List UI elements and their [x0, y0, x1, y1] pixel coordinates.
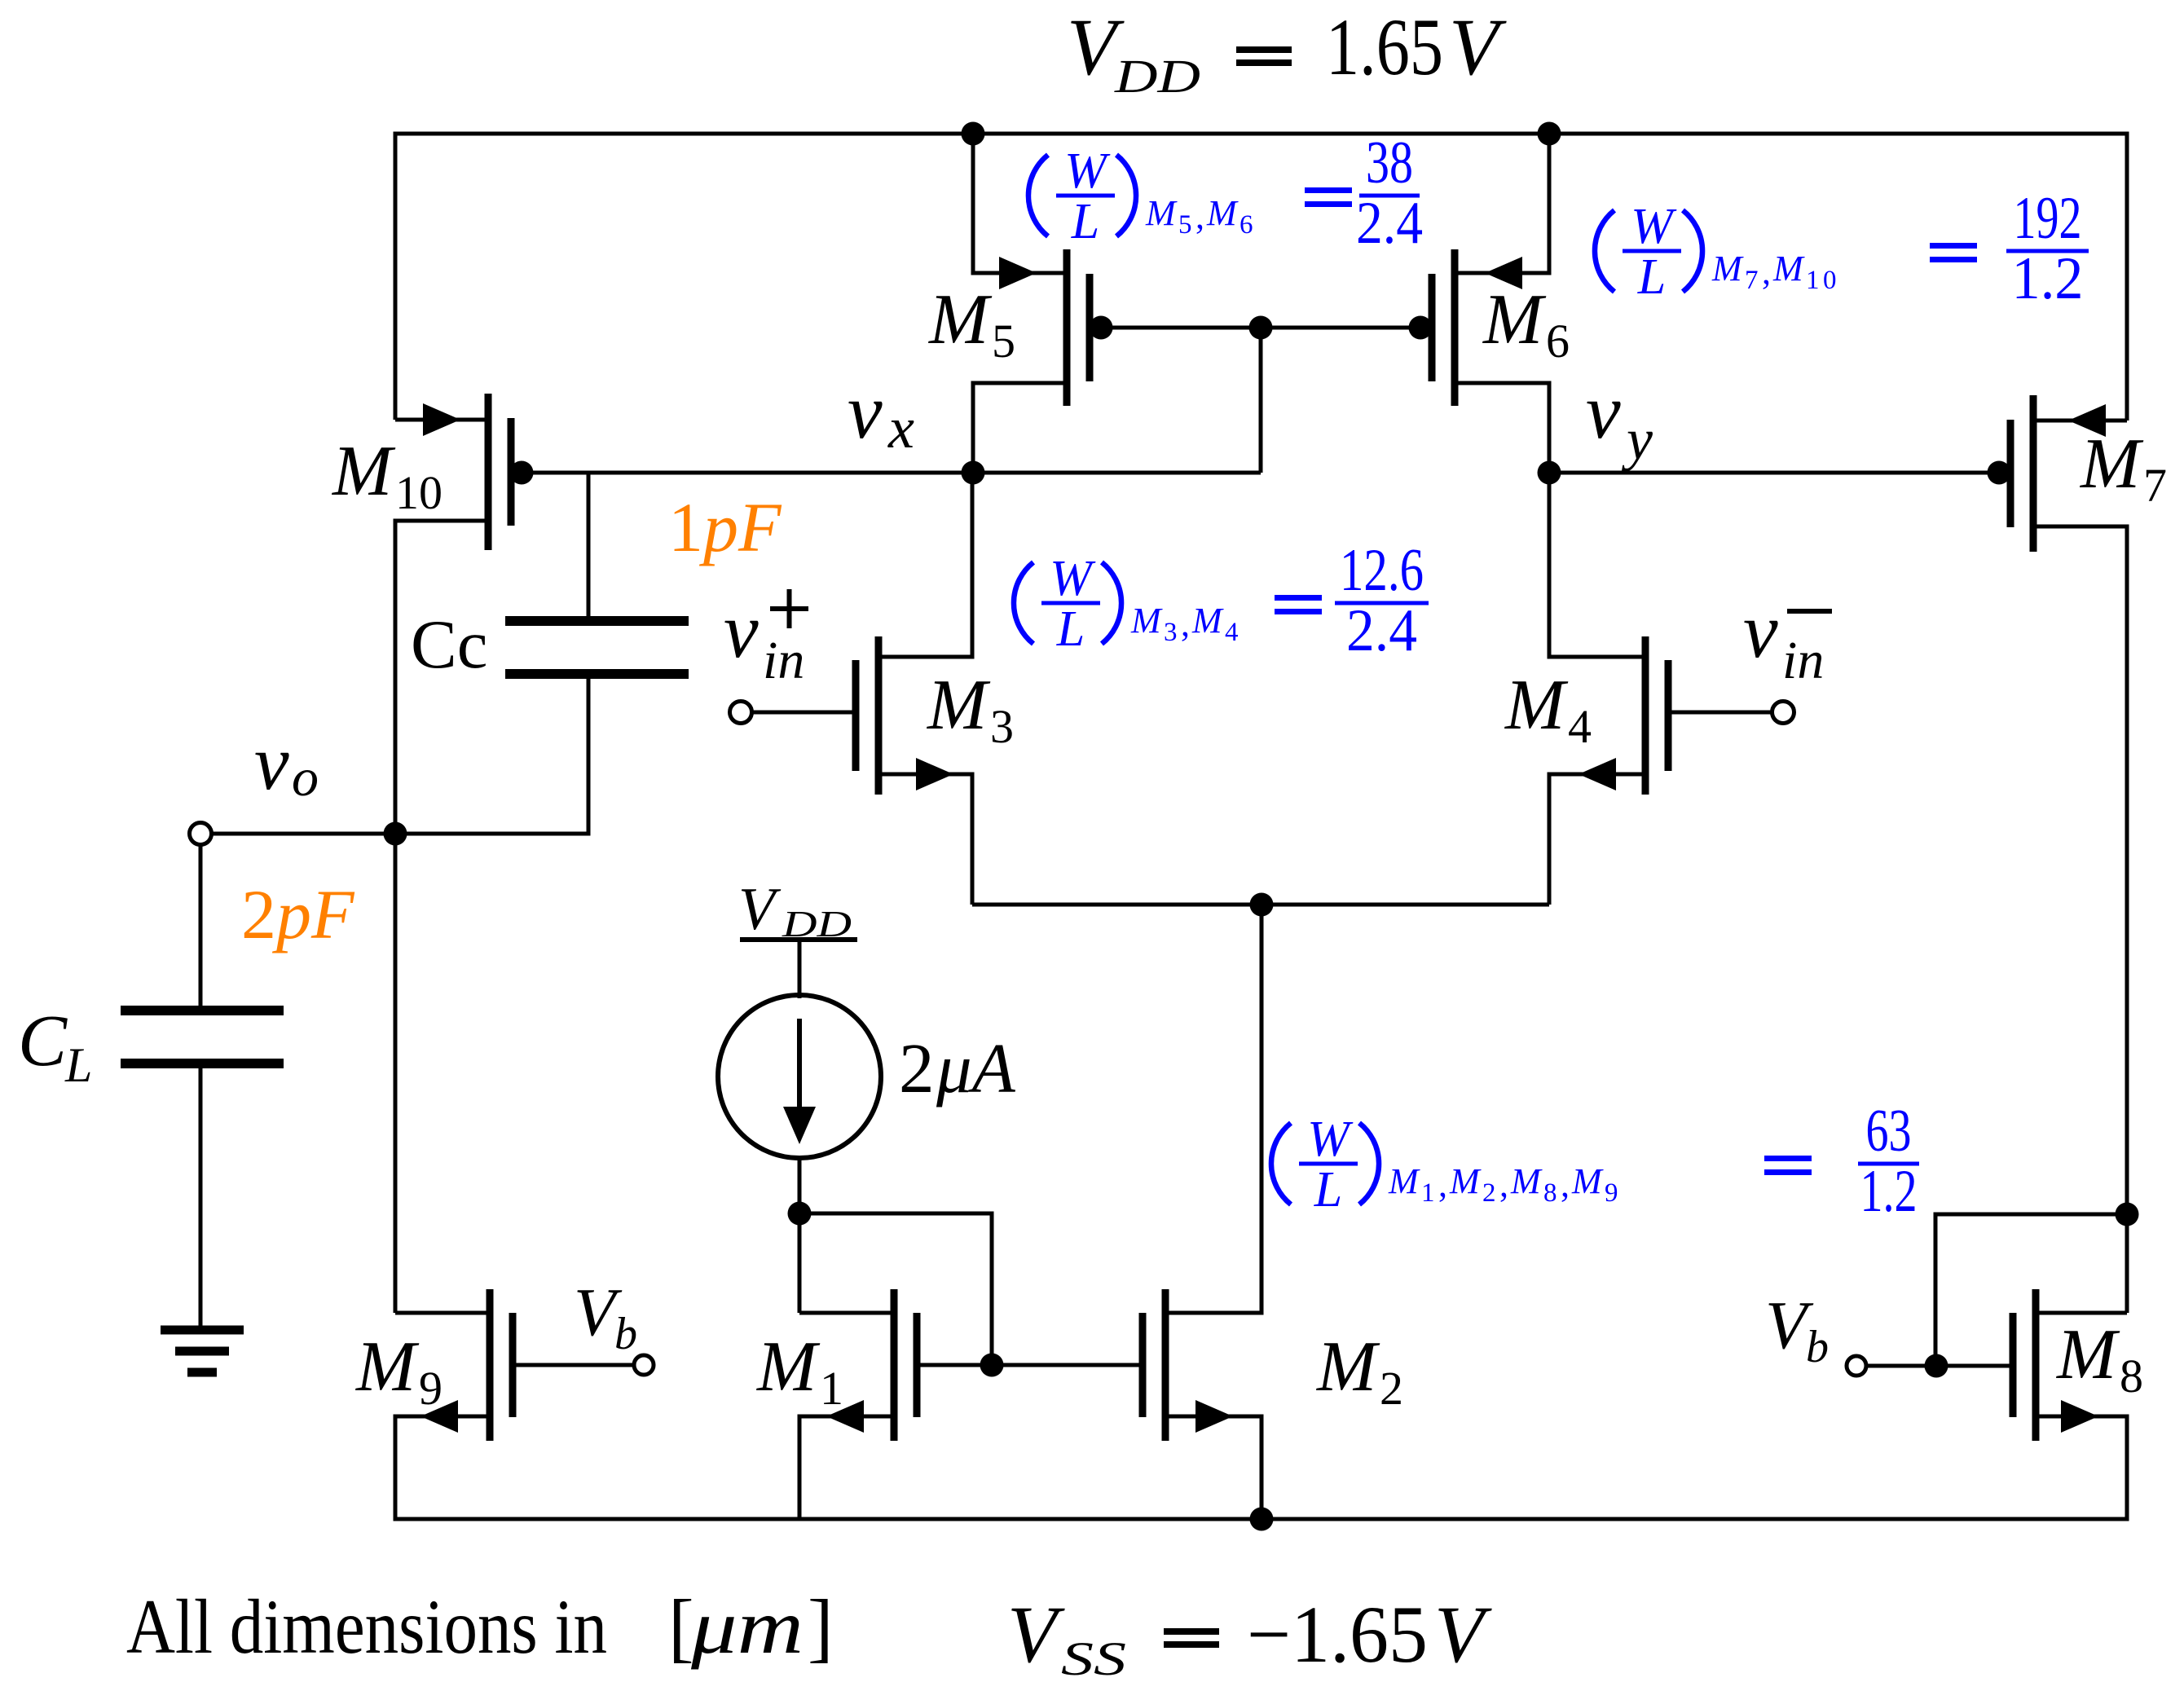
svg-text:V: V [1434, 1589, 1492, 1680]
svg-text:DD: DD [1114, 50, 1200, 103]
label M6 [1482, 280, 1570, 368]
wire M7 drain to right rail [2033, 525, 2127, 529]
wire left rail upper segment [394, 132, 398, 420]
svg-text:M: M [1145, 193, 1178, 233]
node M5 gate junction [1090, 316, 1113, 340]
svg-text:Cc: Cc [411, 606, 487, 683]
svg-text:0: 0 [1823, 266, 1837, 295]
label W/L M1 M2 M8 M9 [1271, 1098, 1919, 1225]
terminal vin- [1772, 702, 1794, 724]
transistor M10 [488, 394, 511, 550]
svg-text:V: V [738, 876, 782, 943]
node VDD junction above M6 [1538, 122, 1561, 146]
svg-text:v: v [1586, 368, 1621, 455]
svg-text:L: L [1314, 1162, 1342, 1217]
wire right rail mid segment [2125, 525, 2129, 1314]
svg-text:M: M [926, 666, 991, 745]
svg-text:2: 2 [241, 875, 276, 953]
label vin- [1743, 587, 1832, 690]
svg-text:,: , [1561, 1165, 1570, 1204]
wire vx bus (M10 gate to gate-bus stub) [511, 471, 1261, 475]
wire M9 gate to Vb terminal [513, 1363, 632, 1367]
label Cc value 1pF [668, 488, 782, 566]
svg-text:3: 3 [990, 700, 1014, 753]
nmos source arrow M3 [916, 758, 953, 790]
label M10 [331, 432, 443, 519]
svg-text:2.4: 2.4 [1356, 190, 1423, 257]
svg-text:7: 7 [1745, 266, 1759, 295]
terminal Vb left [634, 1355, 654, 1375]
label M5 [927, 280, 1015, 368]
wire Cc bottom plate to vo [395, 679, 588, 834]
supply VDD bar [740, 937, 857, 942]
nmos source arrow M1 [826, 1400, 864, 1433]
node right rail junction above M8 [2116, 1203, 2139, 1226]
svg-text:5: 5 [992, 315, 1015, 368]
capacitor Cc [505, 621, 689, 674]
svg-text:9: 9 [419, 1362, 443, 1415]
node M1-M2 gate junction [980, 1354, 1004, 1377]
wire M4 drain to vy [1549, 473, 1645, 657]
label M4 [1504, 666, 1592, 753]
wire tail to M2 drain [1165, 905, 1262, 1313]
wire M9 drain from left rail [395, 1311, 490, 1315]
label W/L M5 M6 [1028, 130, 1423, 257]
label vin+ [724, 587, 808, 690]
label M2 [1315, 1328, 1403, 1415]
label vo [254, 719, 319, 808]
wire M5 source from VDD rail [973, 134, 1067, 273]
node M6 gate junction [1409, 316, 1433, 340]
svg-text:9: 9 [1605, 1178, 1618, 1208]
svg-text:M: M [927, 280, 993, 359]
svg-text:L: L [1637, 249, 1666, 305]
svg-text:M: M [354, 1328, 420, 1407]
svg-text:M: M [1772, 249, 1805, 288]
transistor M8 [2013, 1289, 2036, 1441]
svg-text:2: 2 [1380, 1362, 1403, 1415]
wire Vb terminal to M8 gate [1867, 1364, 2010, 1368]
svg-text:M: M [1449, 1161, 1482, 1201]
wire M1-M2 gate bus [917, 1363, 1143, 1367]
node vy [1538, 461, 1561, 485]
wire M3 source to tail [878, 774, 972, 905]
svg-text:6: 6 [1546, 315, 1570, 368]
svg-text:M: M [755, 1328, 821, 1407]
svg-text:M: M [1504, 666, 1569, 745]
label 2uA [899, 1028, 1016, 1107]
svg-text:b: b [1806, 1322, 1829, 1372]
wire current source to mirror node [798, 1158, 802, 1213]
terminal vo [190, 823, 212, 845]
svg-text:1.65: 1.65 [1326, 2, 1443, 92]
nmos source arrow M8 [2061, 1400, 2098, 1433]
pmos source arrow M10 [423, 403, 460, 436]
svg-text:M: M [2079, 425, 2144, 504]
wire differential pair tail [972, 903, 1549, 907]
svg-text:,: , [1195, 196, 1204, 236]
wire M3 drain to vx [878, 473, 972, 657]
svg-text:M: M [1510, 1161, 1543, 1201]
nmos source arrow M4 [1579, 758, 1616, 790]
svg-text:v: v [254, 719, 289, 806]
terminal Vb right [1847, 1356, 1866, 1376]
svg-text:1.2: 1.2 [2012, 245, 2084, 312]
svg-text:4: 4 [1568, 700, 1592, 753]
capacitor CL [121, 1011, 284, 1063]
svg-text:in: in [1782, 631, 1824, 690]
label VDD = 1.65V [1067, 2, 1507, 103]
svg-text:1.2: 1.2 [1860, 1158, 1918, 1225]
wire left rail lower segment [394, 1415, 398, 1520]
wire M6 drain to node vy [1455, 383, 1549, 461]
label Vb right [1765, 1288, 1829, 1372]
svg-text:M: M [1206, 193, 1239, 233]
pmos source arrow M6 [1485, 257, 1522, 289]
svg-text:[: [ [668, 1583, 694, 1670]
label all dimensions note [126, 1583, 834, 1670]
wire M1 source to VSS [799, 1416, 894, 1519]
svg-text:,: , [1181, 604, 1190, 644]
svg-text:V: V [1007, 1589, 1065, 1680]
transistor M1 [894, 1289, 917, 1441]
svg-text:μA: μA [936, 1028, 1016, 1107]
wire right rail lower segment [2125, 1415, 2129, 1520]
svg-text:SS: SS [1061, 1632, 1126, 1682]
wire M5-M6 gate bus [1090, 326, 1432, 330]
svg-text:V: V [1449, 2, 1507, 92]
wire M10 drain to left rail [395, 519, 488, 523]
label VDD small [738, 876, 852, 944]
transistor M5 [1067, 249, 1090, 406]
svg-text:W: W [1050, 551, 1096, 606]
svg-text:L: L [64, 1038, 92, 1092]
svg-text:L: L [1056, 601, 1085, 657]
svg-text:M: M [331, 432, 396, 511]
wire vin- to M4 gate [1667, 711, 1772, 715]
svg-text:10: 10 [395, 466, 443, 519]
wire VSS bottom rail [394, 1517, 2129, 1521]
wire mirror node to gate bus [799, 1213, 992, 1365]
svg-text:All dimensions in: All dimensions in [126, 1583, 607, 1670]
svg-text:,: , [1438, 1165, 1447, 1204]
current source 2uA [718, 995, 881, 1158]
svg-text:W: W [1631, 199, 1677, 254]
svg-text:M: M [1711, 249, 1744, 288]
wire left rail mid segment [394, 519, 398, 1314]
label W/L M7 M10 [1595, 185, 2089, 312]
svg-text:1: 1 [1421, 1178, 1435, 1208]
wire M8 drain from right rail [2036, 1311, 2127, 1315]
svg-text:192: 192 [2014, 185, 2082, 252]
svg-text:x: x [887, 395, 914, 460]
svg-text:W: W [1307, 1112, 1354, 1167]
svg-text:,: , [1762, 252, 1771, 292]
svg-text:μm: μm [690, 1583, 804, 1670]
svg-text:3: 3 [1164, 618, 1178, 647]
wire vy bus (vy node to M7 gate) [1549, 471, 2010, 475]
svg-text:2: 2 [899, 1028, 935, 1107]
svg-text:12.6: 12.6 [1340, 537, 1424, 604]
node VDD junction above M5 [962, 122, 985, 146]
wire mirror node to M1 drain [798, 1213, 802, 1313]
terminal vin+ [730, 702, 752, 724]
svg-text:v: v [724, 587, 759, 674]
svg-text:7: 7 [2143, 459, 2167, 512]
svg-text:63: 63 [1866, 1098, 1912, 1165]
wire M5 drain to node vx [973, 383, 1067, 461]
label M7 [2079, 425, 2167, 512]
pmos source arrow M7 [2068, 404, 2106, 437]
wire M8 source to VSS [2036, 1416, 2127, 1519]
svg-text:W: W [1064, 143, 1111, 199]
wire vo to output terminal [211, 832, 395, 836]
svg-text:M: M [1571, 1161, 1604, 1201]
svg-text:2.4: 2.4 [1346, 597, 1417, 664]
svg-text:o: o [292, 748, 319, 808]
svg-text:M: M [1130, 601, 1163, 641]
svg-text:in: in [763, 631, 804, 690]
svg-text:8: 8 [2120, 1350, 2143, 1402]
svg-text:M: M [1315, 1328, 1380, 1407]
label M8 [2055, 1315, 2143, 1402]
label vy [1586, 368, 1653, 472]
wire M1 drain [799, 1311, 894, 1315]
svg-text:C: C [18, 1001, 68, 1081]
svg-text:1: 1 [820, 1362, 843, 1415]
wire M7 source from right rail [2033, 419, 2127, 423]
wire M6 source from VDD rail [1455, 134, 1549, 273]
label Vb left [574, 1275, 637, 1359]
svg-text:]: ] [808, 1583, 834, 1670]
svg-text:pF: pF [271, 875, 355, 953]
nmos source arrow M9 [421, 1400, 458, 1433]
svg-text:M: M [2055, 1315, 2120, 1394]
svg-text:1: 1 [1806, 266, 1820, 295]
ground [161, 1330, 244, 1372]
wire M4 source to tail [1549, 774, 1645, 905]
pmos source arrow M5 [999, 257, 1037, 289]
svg-text:4: 4 [1225, 618, 1239, 647]
node VSS junction below M2 [1250, 1508, 1274, 1531]
label W/L M3 M4 [1014, 537, 1429, 664]
wire right rail upper segment [2125, 132, 2129, 421]
transistor M3 [856, 636, 878, 795]
label Cc [411, 606, 487, 683]
svg-text:6: 6 [1240, 210, 1253, 240]
wire vin+ to M3 gate [751, 711, 856, 715]
wire vo terminal to CL [199, 844, 203, 1006]
svg-text:v: v [848, 368, 883, 455]
svg-text:38: 38 [1366, 130, 1413, 196]
node tail junction [1250, 893, 1274, 917]
svg-text:2: 2 [1482, 1178, 1496, 1208]
node bias mirror junction [788, 1202, 812, 1226]
node M8 gate junction [1925, 1354, 1948, 1378]
transistor M6 [1432, 249, 1455, 406]
label vx [848, 368, 914, 460]
svg-text:5: 5 [1178, 210, 1192, 240]
node vx [962, 461, 985, 485]
wire Cc top plate to vx bus [587, 473, 591, 616]
label M1 [755, 1328, 843, 1415]
svg-text:v: v [1743, 587, 1778, 674]
wire right rail to M8 gate [1935, 1214, 2127, 1366]
wire M10 source from left rail [395, 418, 488, 422]
label CL [18, 1001, 92, 1092]
svg-text:M: M [1388, 1161, 1420, 1201]
node M10 gate junction [510, 461, 534, 485]
label M3 [926, 666, 1014, 753]
wire M2 source to VSS [1165, 1416, 1262, 1519]
node vo [384, 822, 407, 846]
node M7 gate junction [1988, 461, 2011, 485]
transistor M7 [2010, 395, 2033, 552]
node gate bus mid junction [1249, 316, 1273, 340]
transistor M4 [1645, 636, 1668, 795]
label CL value 2pF [241, 875, 355, 953]
wire M9 source to VSS [395, 1416, 490, 1519]
svg-text:M: M [1191, 601, 1224, 641]
svg-text:M: M [1482, 280, 1547, 359]
nmos source arrow M2 [1195, 1400, 1233, 1433]
svg-text:8: 8 [1543, 1178, 1557, 1208]
wire VDD bar to current source [798, 940, 802, 998]
svg-text:b: b [614, 1309, 637, 1359]
transistor M2 [1143, 1289, 1165, 1441]
label VSS = -1.65V [1007, 1589, 1492, 1682]
svg-text:L: L [1071, 194, 1099, 249]
wire gate bus to vx stub [1259, 328, 1263, 473]
svg-text:−1.65: −1.65 [1247, 1589, 1428, 1680]
wire VDD top rail [394, 132, 2129, 136]
svg-text:pF: pF [698, 488, 782, 566]
wire CL bottom plate to ground [199, 1068, 203, 1330]
label M9 [354, 1328, 443, 1415]
svg-text:,: , [1499, 1165, 1508, 1204]
transistor M9 [490, 1289, 513, 1441]
svg-text:1: 1 [668, 488, 703, 566]
